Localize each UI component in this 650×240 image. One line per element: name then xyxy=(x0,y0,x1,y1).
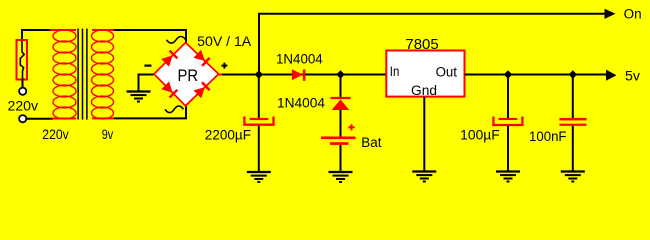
svg-text:Bat: Bat xyxy=(361,135,381,150)
wire 2200uF to ground xyxy=(258,126,260,172)
svg-text:1N4004: 1N4004 xyxy=(277,96,325,111)
wire positive rail red stub xyxy=(219,74,223,76)
transformer core xyxy=(78,29,87,120)
wire fuse to top terminal xyxy=(22,80,24,88)
ground 7805 xyxy=(412,172,436,182)
5v arrow xyxy=(606,70,617,81)
svg-text:PR: PR xyxy=(178,66,199,85)
minus sign bridge xyxy=(144,64,151,66)
AC tilde top xyxy=(167,37,186,44)
plus sign bridge xyxy=(221,63,227,69)
svg-text:2200µF: 2200µF xyxy=(205,128,251,143)
ground 100nF xyxy=(561,172,585,182)
svg-text:7805: 7805 xyxy=(405,36,438,53)
svg-text:On: On xyxy=(624,7,642,22)
svg-text:Gnd: Gnd xyxy=(411,83,437,98)
svg-text:100µF: 100µF xyxy=(460,128,500,143)
wire secondary bottom to bridge xyxy=(114,106,186,118)
svg-text:5v: 5v xyxy=(625,68,640,83)
wire fuse top to transformer primary xyxy=(22,30,51,41)
svg-text:Out: Out xyxy=(436,65,458,80)
svg-text:9v: 9v xyxy=(102,127,114,142)
wire positive rail xyxy=(222,74,387,76)
regulator U1 7805 xyxy=(386,51,464,99)
capacitor 100nF xyxy=(559,118,586,126)
wire secondary top to bridge xyxy=(114,30,186,43)
plus sign battery xyxy=(348,124,354,130)
svg-text:100nF: 100nF xyxy=(529,129,567,144)
diode D2 1N4004 xyxy=(331,97,351,110)
diode D1 1N4004 xyxy=(292,69,306,81)
terminal 220v live xyxy=(19,88,26,95)
wire 7805 Gnd xyxy=(423,97,425,171)
wire riser to On rail xyxy=(259,14,606,75)
wire to 100nF xyxy=(572,75,574,119)
svg-text:In: In xyxy=(390,64,400,79)
terminal 220v neutral xyxy=(19,115,26,122)
wire battery to ground xyxy=(340,145,342,172)
AC tilde bottom xyxy=(165,106,183,113)
wire 100uF to ground xyxy=(507,126,509,171)
svg-text:220v: 220v xyxy=(42,127,69,142)
capacitor 100uF xyxy=(493,117,522,126)
wire D2 to battery xyxy=(340,110,342,137)
ground 100uF xyxy=(496,172,520,182)
wire bottom terminal to primary xyxy=(27,118,54,120)
transformer secondary winding xyxy=(92,30,115,119)
wire 100nF to ground xyxy=(572,126,574,171)
wire bridge negative to ground xyxy=(139,75,154,92)
capacitor 2200uF xyxy=(244,117,273,125)
transformer primary winding xyxy=(50,30,76,119)
svg-text:220v: 220v xyxy=(8,98,39,113)
ground bridge negative xyxy=(127,92,151,102)
node junction 100nF xyxy=(569,70,577,78)
bridge diode bottom-left xyxy=(161,81,178,98)
wire output rail xyxy=(465,74,608,76)
wire to 100uF xyxy=(507,75,509,119)
wire to 2200uF xyxy=(258,75,260,119)
svg-text:50V / 1A: 50V / 1A xyxy=(197,34,251,49)
node junction 100uF xyxy=(504,70,512,78)
battery Bat xyxy=(321,137,356,145)
bridge diode top-left xyxy=(161,50,178,67)
On arrow xyxy=(605,9,616,19)
svg-text:1N4004: 1N4004 xyxy=(276,51,323,66)
ground battery xyxy=(329,172,353,182)
bridge rectifier PR xyxy=(154,43,219,106)
node junction 2200uF xyxy=(255,70,263,78)
node junction battery xyxy=(336,70,344,78)
fuse F1 xyxy=(17,40,28,80)
bridge diode bottom-right xyxy=(194,81,211,98)
ground 2200uF xyxy=(247,172,271,182)
wire battery branch xyxy=(340,75,342,98)
bridge diode top-right xyxy=(194,50,211,67)
